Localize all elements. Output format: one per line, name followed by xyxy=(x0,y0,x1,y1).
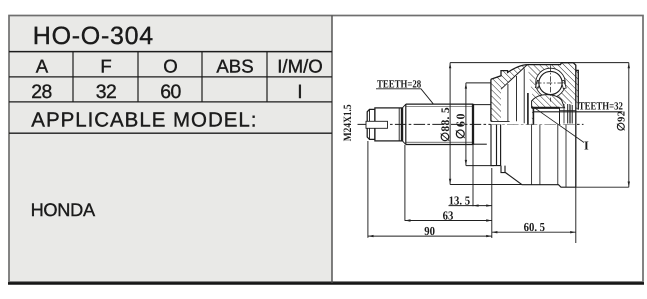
spline root line bottom xyxy=(406,141,473,143)
svg-text:F: F xyxy=(100,56,111,77)
dim 90 arrows xyxy=(368,235,492,237)
hub right edge xyxy=(559,108,561,125)
table line below title xyxy=(9,51,332,53)
dia60 dimension line xyxy=(466,83,494,166)
svg-text:APPLICABLE MODEL:: APPLICABLE MODEL: xyxy=(31,109,257,132)
svg-text:∅60: ∅60 xyxy=(454,112,468,139)
svg-text:I: I xyxy=(584,139,589,153)
chamfer to spline top xyxy=(402,104,406,108)
svg-text:60: 60 xyxy=(160,81,181,103)
dim 13.5 line xyxy=(449,205,492,207)
column divider 3 xyxy=(201,52,203,102)
dia92 arrows xyxy=(628,63,630,187)
svg-text:90: 90 xyxy=(424,224,435,238)
race bore thick line xyxy=(532,107,560,109)
thread groove line xyxy=(398,108,400,141)
table line below applicable model row xyxy=(9,132,332,134)
cavity internal verticals xyxy=(508,69,524,124)
left gray panel xyxy=(9,16,332,284)
dim 13.5 arrows xyxy=(473,204,492,206)
svg-text:∅88. 5: ∅88. 5 xyxy=(440,107,452,142)
svg-text:13. 5: 13. 5 xyxy=(449,193,470,207)
spline end thick edge xyxy=(472,104,474,145)
rim groove bottom edge xyxy=(491,120,510,122)
bore step lines xyxy=(560,104,576,124)
cage sliver left xyxy=(535,80,540,88)
shoulder thick edge xyxy=(401,108,403,142)
cone surface line xyxy=(501,65,527,90)
dia60 arrows xyxy=(465,83,467,165)
dia88.5 arrows xyxy=(449,63,451,184)
dim 63 line xyxy=(405,220,492,222)
cage sliver right xyxy=(561,80,566,88)
column divider 2 xyxy=(137,52,139,102)
external groove lines bottom xyxy=(532,124,566,186)
dim 60.5 line xyxy=(492,231,576,233)
svg-text:A: A xyxy=(36,56,49,77)
thread stub small section xyxy=(367,109,375,139)
svg-text:TEETH=32: TEETH=32 xyxy=(579,101,624,113)
housing external bottom profile xyxy=(491,124,576,187)
extension line at 491.8 xyxy=(491,168,493,238)
teeth28 underline and leader xyxy=(376,89,434,104)
svg-text:I/M/O: I/M/O xyxy=(277,56,322,77)
column divider 1 xyxy=(72,52,74,102)
housing outer profile top xyxy=(491,63,578,188)
extension line at 575.8 xyxy=(575,187,577,243)
frame bottom dark edge xyxy=(8,282,644,285)
svg-text:∅92: ∅92 xyxy=(617,111,628,132)
svg-text:HO-O-304: HO-O-304 xyxy=(33,22,154,50)
dim 60.5 arrows xyxy=(492,231,576,233)
panel divider xyxy=(331,16,333,284)
extension line at 367.9 xyxy=(367,141,369,238)
table line below values row xyxy=(9,101,332,103)
extension line at 404.9 xyxy=(404,145,406,221)
thread stub main section xyxy=(375,108,402,141)
table line below header row xyxy=(9,76,332,78)
thread stub chamfer line xyxy=(369,109,371,139)
svg-text:60. 5: 60. 5 xyxy=(524,220,545,234)
svg-text:HONDA: HONDA xyxy=(31,200,96,220)
ball crosshair horizontal xyxy=(536,82,566,84)
spline root line top xyxy=(406,105,473,107)
ball crosshair vertical xyxy=(550,66,552,102)
rim band below groove white xyxy=(491,122,501,125)
hub left edge xyxy=(532,108,534,125)
teeth32 underline leader xyxy=(534,111,623,113)
dim 90 line xyxy=(368,235,492,237)
mouth cavity white xyxy=(501,65,533,125)
housing section hatched mass xyxy=(491,63,578,125)
dia88.5 dimension line xyxy=(450,63,629,185)
neck top edge xyxy=(473,104,491,106)
svg-text:M24X1.5: M24X1.5 xyxy=(342,104,354,141)
dia92 dimension line xyxy=(576,63,629,188)
svg-text:63: 63 xyxy=(443,208,454,222)
chamfer to spline bottom xyxy=(402,141,406,145)
extension line at 473 xyxy=(472,145,474,206)
neck bottom edge xyxy=(473,143,487,145)
svg-text:I: I xyxy=(297,81,302,103)
pocket arc xyxy=(536,68,566,98)
thread end slot xyxy=(366,121,388,128)
svg-text:O: O xyxy=(163,56,177,77)
centerline xyxy=(358,123,584,125)
svg-text:ABS: ABS xyxy=(216,56,253,77)
column divider 4 xyxy=(266,52,268,102)
I leader xyxy=(535,108,585,143)
spline section outline xyxy=(406,104,473,144)
svg-text:32: 32 xyxy=(96,81,117,103)
ball xyxy=(539,71,562,94)
hub and bore white xyxy=(533,104,575,125)
track shoulder edge xyxy=(527,93,529,124)
svg-text:28: 28 xyxy=(31,81,52,103)
inner race hatched xyxy=(532,95,565,108)
ball pocket white xyxy=(536,68,566,98)
dim 63 arrows xyxy=(405,219,492,221)
